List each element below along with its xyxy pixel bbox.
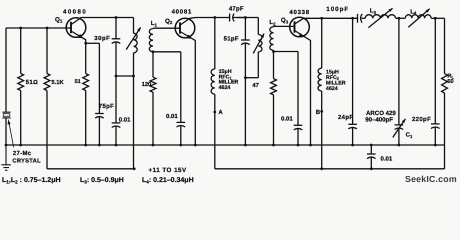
svg-text:120: 120 — [142, 81, 152, 88]
node C1 bottom — [398, 144, 401, 147]
inductor L2 adjustable tank — [257, 18, 259, 35]
capacitor 24pF — [352, 18, 354, 124]
svg-text:51Ω: 51Ω — [26, 79, 38, 86]
transistor Q1 40080 — [66, 18, 86, 38]
svg-text:40338: 40338 — [289, 9, 309, 16]
ground — [1, 145, 10, 170]
wire tank1 bottom — [116, 75, 134, 77]
svg-text:0.01: 0.01 — [281, 115, 293, 122]
svg-text:100pF: 100pF — [326, 6, 349, 13]
leader arrow to crystal — [9, 122, 14, 148]
svg-text:90–400pF: 90–400pF — [365, 117, 393, 124]
node Q1 emitter junction — [84, 42, 87, 45]
wire tank2 bottom — [245, 77, 258, 79]
node R3 bottom — [84, 144, 87, 147]
svg-text:+11 TO 15V: +11 TO 15V — [149, 167, 187, 174]
svg-text:40080: 40080 — [63, 8, 87, 15]
arrow L3 adjust — [368, 8, 392, 27]
crystal Y1 27-Mc — [2, 112, 10, 118]
inductor L1 — [149, 29, 153, 52]
node 24pF bottom — [351, 144, 354, 147]
node R1 bottom — [19, 144, 22, 147]
svg-text:0.01: 0.01 — [166, 113, 178, 120]
node R5 bottom — [272, 144, 275, 147]
svg-text:40081: 40081 — [172, 8, 192, 15]
node 0.01-4 top — [370, 144, 373, 147]
capacitor C 0.01 stage1 — [115, 76, 117, 123]
resistor R2 5.1K — [46, 28, 48, 74]
node 0.01-1 bottom — [115, 144, 118, 147]
wire left vertical to crystal — [5, 28, 7, 112]
capacitor 47pF — [228, 17, 230, 19]
svg-text:SeekIC.com: SeekIC.com — [405, 174, 457, 184]
node R2 top — [46, 27, 49, 30]
resistor R1 510 — [20, 28, 22, 74]
node 220pF top — [434, 17, 437, 20]
node L3-L4 junction — [398, 17, 401, 20]
svg-text:51: 51 — [75, 79, 81, 85]
resistor RL 50 — [444, 18, 446, 73]
svg-text:4624: 4624 — [219, 85, 231, 91]
arrow C1 adjust — [393, 119, 406, 138]
capacitor 30pF — [115, 18, 117, 39]
node rail B tank1 junction — [133, 167, 136, 170]
wire L1 top to Q2 base — [153, 27, 180, 29]
svg-text:B: B — [316, 109, 321, 116]
node tank1 bottom left — [115, 75, 118, 78]
svg-text:51pF: 51pF — [224, 35, 239, 42]
svg-text:47pF: 47pF — [229, 5, 244, 12]
wire left bias rail — [6, 27, 71, 29]
svg-text:50: 50 — [447, 79, 453, 85]
node test point B — [320, 110, 323, 113]
capacitor 51pF — [244, 18, 246, 41]
svg-text:L4: 0.21–0.34μH: L4: 0.21–0.34μH — [142, 177, 194, 184]
wire 51pF line to ground — [244, 78, 246, 145]
svg-text:A: A — [218, 109, 223, 116]
node 0.01-4 bottom — [370, 167, 373, 170]
svg-text:24pF: 24pF — [338, 114, 353, 121]
node 220pF bottom — [434, 144, 437, 147]
node 75pF bottom — [98, 144, 101, 147]
node L1 bottom — [152, 50, 155, 53]
node 30pF top — [115, 16, 118, 19]
wire rail3 to output corner — [431, 17, 444, 19]
node crystal-rail junction — [5, 144, 8, 147]
node 24pF top — [351, 17, 354, 20]
node Q3 emitter bottom — [309, 144, 312, 147]
capacitor 100pF — [357, 14, 359, 23]
svg-text:CRYSTAL: CRYSTAL — [12, 158, 41, 165]
svg-text:30pF: 30pF — [94, 35, 110, 42]
arrow L2 tank adjust — [253, 34, 264, 54]
inductor L1 adjustable tank — [133, 18, 135, 34]
arrow L4 adjust — [408, 9, 429, 27]
inductor RFC1 15uH — [214, 18, 216, 70]
inductor RFC2 15uH — [321, 18, 323, 68]
arrow L1 tank adjust — [126, 27, 140, 49]
node Q2 emitter bottom — [194, 144, 197, 147]
svg-text:4624: 4624 — [326, 86, 338, 92]
capacitor C1 ARCO 429 variable — [398, 18, 400, 125]
transistor Q3 40338 — [290, 17, 310, 37]
capacitor 220pF — [434, 18, 436, 124]
wire crystal to ground rail — [5, 117, 7, 145]
svg-text:0.01: 0.01 — [381, 155, 393, 162]
svg-text:0.01: 0.01 — [119, 116, 131, 123]
wire emitter junction to 75pF — [86, 42, 100, 44]
wire L1 bottom to 0.01-2 — [153, 51, 181, 53]
node tank1 bottom right — [132, 75, 135, 78]
transistor Q2 40081 — [175, 18, 195, 38]
wire ground rail A — [6, 144, 445, 146]
svg-text:L1,L2 : 0.75–1.2μH: L1,L2 : 0.75–1.2μH — [2, 177, 61, 184]
node L2 bottom — [272, 50, 275, 53]
node test point A — [213, 111, 216, 114]
wire Q3 collector rail — [304, 17, 358, 19]
inductor L2 — [270, 27, 274, 51]
svg-text:75pF: 75pF — [99, 103, 114, 110]
wire Q2 collector rail left — [190, 17, 228, 20]
capacitor 75pF — [98, 43, 100, 113]
resistor R5 47 — [273, 52, 275, 79]
svg-text:L3: 0.5–0.9μH: L3: 0.5–0.9μH — [80, 177, 124, 184]
svg-text:27-Mc: 27-Mc — [13, 150, 32, 157]
inductor L4 — [396, 17, 406, 19]
node R1 top — [19, 27, 22, 30]
node RFC1 top — [213, 16, 216, 19]
wire Q1 collector rail — [81, 17, 134, 19]
wire supply rail B right — [215, 168, 445, 170]
node RFC2 top — [320, 17, 323, 20]
svg-text:220pF: 220pF — [412, 116, 431, 123]
svg-text:47: 47 — [252, 83, 258, 89]
node 0.01-3 bottom — [297, 144, 300, 147]
node 0.01-2 bottom — [179, 144, 182, 147]
node R4 bottom — [152, 144, 155, 147]
capacitor C 0.01 stage3 — [297, 52, 299, 126]
svg-text:5.1K: 5.1K — [51, 80, 64, 86]
node RFC2 rail B junction — [320, 167, 323, 170]
wire L2 bottom to 0.01-3 — [274, 51, 299, 53]
inductor L3 — [361, 17, 365, 19]
wire supply rail B left — [47, 168, 134, 170]
node 51pF line bottom — [244, 144, 247, 147]
wire rail2 right — [238, 17, 258, 19]
wire L2 top to Q3 base — [274, 25, 295, 27]
capacitor C 0.01 stage2 — [180, 52, 182, 123]
node 51pF top — [244, 16, 247, 19]
node tank2 bottom — [244, 76, 247, 79]
resistor R4 120 — [152, 52, 154, 77]
resistor R3 51 — [85, 43, 87, 73]
capacitor C 0.01 output — [370, 145, 372, 154]
